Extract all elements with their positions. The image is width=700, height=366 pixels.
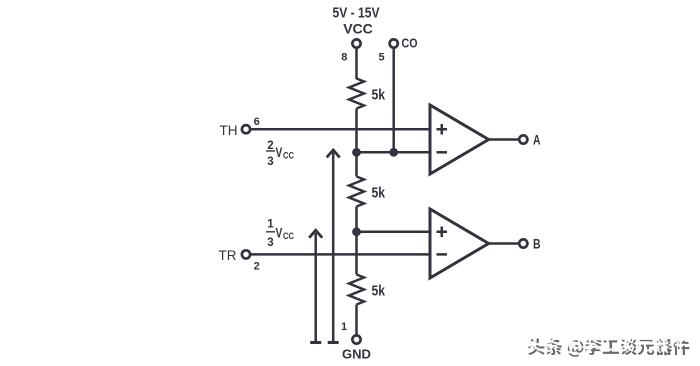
svg-text:CO: CO: [402, 36, 418, 51]
wire U1 output: [489, 138, 519, 141]
svg-text:V: V: [276, 226, 283, 241]
resistor R2 5k: [349, 177, 364, 207]
terminal TH pin 6: [242, 125, 250, 133]
ground bar of 1/3Vcc arrow: [310, 341, 321, 344]
arrowhead 1/3Vcc: [309, 230, 322, 237]
svg-text:6: 6: [254, 116, 260, 128]
wire CO vertical: [392, 48, 395, 153]
U1 minus sign: [437, 151, 448, 154]
wire TH horizontal: [251, 128, 431, 131]
wire R1 to node A2/3: [355, 109, 358, 177]
wire node 2/3 to comparator U1 minus: [357, 151, 431, 154]
watermark shadow 头条@李工谈元器件: [528, 339, 689, 357]
svg-text:2: 2: [267, 140, 273, 152]
svg-text:5V - 15V: 5V - 15V: [333, 5, 380, 22]
svg-text:A: A: [533, 132, 541, 148]
wire node 1/3 to comparator U2 plus: [357, 231, 431, 234]
wire U2 output: [489, 242, 519, 245]
resistor R1 5k: [349, 79, 364, 109]
svg-text:5k: 5k: [372, 283, 386, 300]
svg-text:VCC: VCC: [343, 21, 373, 37]
ground bar of 2/3Vcc arrow: [328, 341, 339, 344]
arrowhead 2/3Vcc: [327, 150, 340, 157]
svg-text:CC: CC: [283, 231, 294, 242]
U1 plus sign: [437, 124, 448, 135]
svg-text:V: V: [276, 145, 283, 160]
terminal output A: [519, 135, 527, 143]
label 2/3 Vcc: [266, 140, 294, 168]
svg-text:1: 1: [341, 321, 347, 333]
resistor R3 5k: [349, 275, 364, 305]
svg-text:5k: 5k: [372, 185, 386, 202]
svg-text:8: 8: [341, 52, 347, 64]
wire R3 to GND: [355, 305, 358, 336]
svg-text:GND: GND: [342, 347, 371, 362]
svg-text:TH: TH: [220, 123, 238, 138]
junction node 2/3 Vcc: [352, 148, 361, 157]
svg-text:3: 3: [267, 156, 273, 168]
wire VCC to R1: [355, 48, 358, 80]
terminal TR pin 2: [242, 250, 250, 258]
svg-text:TR: TR: [219, 248, 237, 263]
svg-text:3: 3: [267, 237, 273, 249]
svg-text:CC: CC: [283, 151, 294, 162]
terminal output B: [519, 239, 527, 247]
op-amp U2 comparator triangle: [430, 209, 489, 278]
watermark text 头条@李工谈元器件: [525, 335, 686, 353]
junction node CO tap: [389, 148, 398, 157]
terminal CO pin 5: [390, 39, 398, 47]
svg-text:5: 5: [378, 52, 384, 64]
svg-text:2: 2: [254, 261, 260, 273]
U2 minus sign: [437, 253, 448, 256]
op-amp U1 comparator triangle: [430, 105, 489, 174]
wire R2 to node B1/3: [355, 207, 358, 275]
terminal GND pin 1: [352, 335, 360, 343]
svg-text:B: B: [533, 236, 541, 252]
wire arrow shaft 1/3Vcc: [314, 233, 317, 342]
wire TR horizontal: [251, 253, 431, 256]
terminal VCC pin 8: [352, 39, 360, 47]
junction node 1/3 Vcc: [352, 227, 361, 236]
wire arrow shaft 2/3Vcc: [332, 153, 335, 342]
svg-text:5k: 5k: [372, 87, 386, 104]
U2 plus sign: [437, 227, 448, 238]
svg-text:1: 1: [267, 219, 274, 231]
label 1/3 Vcc: [266, 219, 294, 249]
